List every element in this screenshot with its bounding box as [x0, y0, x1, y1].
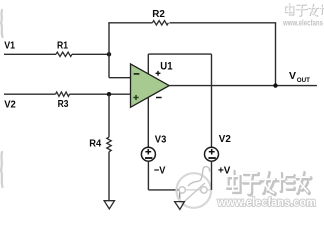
pin label + (non-inverting input)	[133, 95, 138, 100]
svg-text:V2: V2	[219, 133, 231, 145]
svg-text:−V: −V	[154, 164, 166, 176]
resistor R1	[56, 39, 72, 56]
svg-text:R1: R1	[57, 39, 68, 51]
svg-text:R2: R2	[152, 8, 165, 20]
voltage source V2 (+V supply)	[205, 133, 231, 176]
wire R4 vertical lower	[108, 152, 110, 201]
node VOUT junction dot	[273, 83, 277, 87]
svg-text:www.elecfans: www.elecfans	[282, 19, 323, 28]
svg-text:V: V	[289, 70, 296, 82]
ground (below R4)	[104, 201, 114, 209]
wire V3 source bottom	[147, 161, 149, 190]
pin label + (positive supply)	[156, 71, 161, 76]
svg-text:www.elecfans.com: www.elecfans.com	[217, 197, 316, 209]
svg-text:U1: U1	[160, 60, 172, 72]
voltage source V3 (-V supply)	[141, 133, 166, 176]
svg-text:V1: V1	[4, 40, 15, 52]
watermark top-right CJK text (电子发烧友, approximated strokes)	[286, 4, 324, 16]
node B junction dot (V2/R4)	[107, 92, 111, 96]
wire +V rail horizontal	[148, 53, 211, 55]
wire feedback vertical right	[275, 23, 277, 86]
ground (supply common)	[175, 202, 185, 210]
supply stub top (to +V rail)	[147, 54, 149, 75]
label VOUT	[289, 70, 311, 84]
svg-text:R4: R4	[89, 138, 101, 150]
wire R4 vertical upper	[108, 94, 110, 137]
svg-text:V2: V2	[4, 99, 16, 111]
wire V1 input	[4, 53, 108, 55]
wire inverting input horizontal	[109, 77, 131, 79]
pin label - (negative supply)	[156, 97, 162, 99]
resistor R2	[152, 8, 168, 25]
wire +V rail vertical (crosses output, no connection)	[211, 54, 213, 147]
watermark logo small circle left	[179, 187, 185, 193]
watermark fragment left-bottom edge	[1, 152, 3, 187]
wire ground stub (faded)	[179, 190, 181, 201]
wire bottom rail (dark segment)	[148, 189, 180, 191]
resistor R3	[56, 92, 70, 110]
svg-text:OUT: OUT	[297, 77, 311, 84]
wire V2 source bottom	[211, 161, 213, 190]
svg-text:V3: V3	[155, 133, 167, 145]
node A junction dot (V1/R2 feedback)	[107, 52, 111, 56]
watermark bottom-right CJK text (电子发烧友, approximated strokes)	[228, 172, 311, 194]
wire V2 input	[4, 93, 131, 95]
svg-text:+V: +V	[218, 164, 230, 176]
svg-text:R3: R3	[58, 98, 69, 110]
pin label - (inverting input)	[134, 73, 140, 75]
wire top feedback horizontal	[108, 22, 276, 24]
watermark fragment left-top edge	[1, 10, 3, 37]
watermark logo small circle right	[201, 187, 207, 193]
resistor R4	[89, 137, 111, 152]
supply stub bottom (to -V source)	[147, 97, 149, 148]
wire output	[169, 85, 317, 87]
watermark logo circle (elecfans)	[177, 167, 212, 208]
wire vertical from top corner through node A down to inverting input	[108, 23, 110, 78]
op-amp U1	[131, 60, 173, 107]
wire bottom rail (faded inside watermark logo)	[180, 189, 212, 191]
